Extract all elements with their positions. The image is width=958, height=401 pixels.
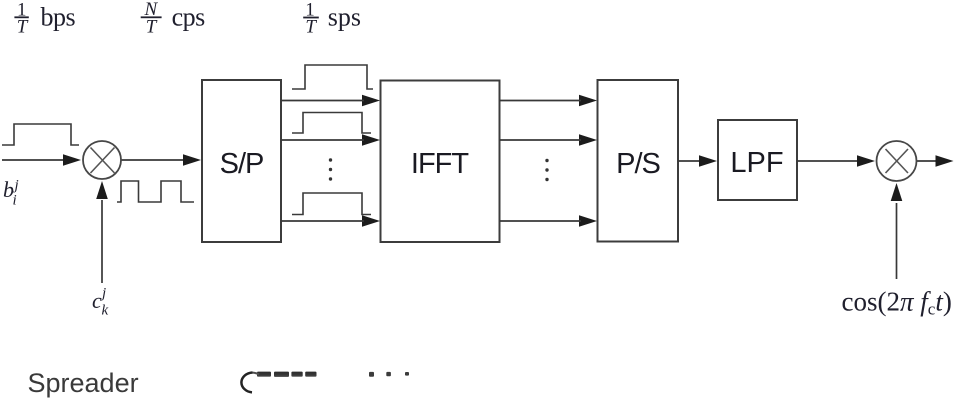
svg-text:LPF: LPF — [730, 147, 783, 179]
svg-text:c: c — [92, 288, 102, 313]
svg-text:bps: bps — [41, 2, 76, 31]
svg-text:i: i — [13, 193, 17, 209]
svg-text:S/P: S/P — [220, 148, 264, 180]
svg-text:sps: sps — [328, 2, 361, 31]
svg-text:P/S: P/S — [616, 148, 660, 180]
svg-text:T: T — [17, 16, 29, 37]
svg-text:cps: cps — [172, 2, 206, 31]
svg-text:T: T — [146, 16, 158, 37]
svg-text:k: k — [102, 303, 109, 319]
svg-text:cos(2π fct): cos(2π fct) — [842, 287, 952, 319]
svg-text:Spreader: Spreader — [28, 368, 139, 398]
svg-text:T: T — [305, 17, 317, 38]
svg-text:IFFT: IFFT — [411, 148, 469, 180]
